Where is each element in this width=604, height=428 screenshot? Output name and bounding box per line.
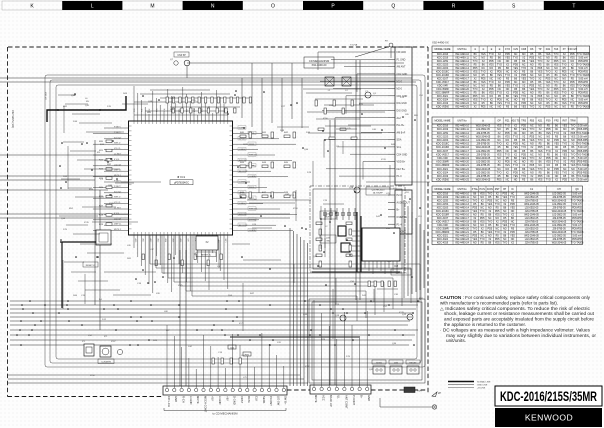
svg-text:J29-0785-05: J29-0785-05 (525, 242, 539, 245)
svg-text:PD5: PD5 (521, 125, 526, 128)
svg-text:L02-0502-05: L02-0502-05 (476, 128, 490, 131)
svg-text:the appliance is returned to t: the appliance is returned to the custome… (444, 322, 526, 327)
svg-text:AUX SW: AUX SW (239, 213, 247, 216)
svg-text:P.CONT: P.CONT (269, 396, 273, 406)
svg-text:X92-4490-21: X92-4490-21 (455, 164, 469, 167)
svg-text:③: ③ (490, 48, 492, 51)
svg-text:NO: NO (514, 179, 518, 182)
svg-text:and exposed parts are acceptab: and exposed parts are acceptably insulat… (444, 317, 595, 322)
svg-text:IC11: IC11 (290, 195, 295, 197)
svg-text:PD5: PD5 (513, 171, 518, 174)
svg-text:PWR CTL: PWR CTL (249, 209, 258, 211)
svg-text:NO: NO (498, 106, 502, 109)
svg-text:P KEY1: P KEY1 (114, 127, 121, 129)
svg-text:X92-4490-10: X92-4490-10 (455, 125, 469, 128)
svg-text:PD5: PD5 (521, 153, 526, 156)
connector CN1 to CD mechanism (163, 386, 288, 413)
svg-text:X92-4490-23: X92-4490-23 (455, 171, 469, 174)
svg-text:NC: NC (522, 171, 526, 174)
svg-text:J29-0785-05: J29-0785-05 (476, 153, 490, 156)
svg-text:TYO: TYO (505, 153, 510, 156)
svg-text:YES: YES (495, 242, 500, 245)
svg-text:X92-4490-17: X92-4490-17 (455, 150, 469, 153)
crystal X1 oscillator (82, 341, 123, 364)
svg-text:TRS: TRS (521, 119, 526, 122)
svg-text:CD MECHANISM: CD MECHANISM (309, 59, 329, 63)
svg-text:NO: NO (547, 164, 551, 167)
svg-text:LCD CE: LCD CE (114, 164, 122, 166)
svg-text:L-DATA: L-DATA (249, 229, 256, 232)
svg-text:5:00 mH: 5:00 mH (578, 146, 587, 149)
svg-text:KDC-3024: KDC-3024 (437, 171, 449, 174)
svg-text:NO: NO (522, 132, 526, 135)
switch S3 reset (406, 360, 420, 374)
svg-text:X92-4490-22: X92-4490-22 (455, 168, 469, 171)
bracket to CD mechanism (164, 408, 286, 416)
op-amp region: IC1 microcontroller body (129, 121, 233, 235)
svg-text:ADJ TS: ADJ TS (511, 119, 520, 122)
svg-text:SIRK D: SIRK D (114, 143, 121, 145)
svg-text:5:00 mH: 5:00 mH (578, 125, 587, 128)
svg-text:N: N (211, 4, 215, 10)
audio sub-board outline (310, 186, 405, 272)
svg-text:DIG GND: DIG GND (397, 110, 408, 113)
table 3 destination chart (432, 186, 583, 245)
svg-text:MODEL NAME: MODEL NAME (435, 188, 451, 191)
svg-text:unit/units.: unit/units. (446, 338, 466, 343)
svg-text:TYO: TYO (562, 171, 567, 174)
svg-text:NC: NC (530, 153, 534, 156)
svg-text:NO: NO (562, 106, 566, 109)
svg-text:NO: NO (522, 161, 526, 164)
svg-text:SMC1: SMC1 (249, 144, 254, 146)
svg-text:YES: YES (571, 164, 576, 167)
svg-text:L-SEG: L-SEG (239, 149, 245, 151)
wire horizontal bus bundle middle (10, 301, 420, 325)
svg-text:SDA: SDA (397, 139, 402, 142)
svg-text:YES: YES (505, 164, 510, 167)
svg-text:+B LINE: +B LINE (477, 388, 486, 390)
svg-text:O: O (271, 4, 275, 10)
svg-text:PD5: PD5 (505, 132, 510, 135)
title block model number (495, 386, 602, 406)
svg-text:· DC voltages are as measured: · DC voltages are as measured with a hig… (440, 327, 590, 332)
svg-text:XRST: XRST (240, 396, 244, 404)
svg-text:UNIT No: UNIT No (457, 188, 467, 191)
svg-text:R-CH: R-CH (182, 396, 186, 403)
svg-text:NO: NO (555, 175, 559, 178)
wire vertical risers top-mid (242, 63, 302, 136)
connector CN2 lower pin ladder (388, 190, 412, 234)
svg-text:D41: D41 (546, 48, 551, 51)
svg-text:PD5: PD5 (546, 157, 551, 160)
svg-text:TYO-TA008: TYO-TA008 (576, 132, 589, 135)
svg-text:NO: NO (563, 157, 567, 160)
svg-text:AD6: AD6 (179, 239, 182, 243)
svg-text:5:00 mH: 5:00 mH (578, 168, 587, 171)
svg-text:KDC-X4R: KDC-X4R (437, 157, 448, 160)
svg-text:X92-4490-00: X92-4490-00 (312, 63, 328, 67)
svg-text:NO: NO (555, 146, 559, 149)
svg-text:L02-0502-05: L02-0502-05 (476, 150, 490, 153)
svg-text:YES: YES (513, 175, 518, 178)
transistor Q1 tuner (365, 92, 377, 98)
wire junction dots (16, 90, 421, 346)
svg-text:TYO: TYO (513, 164, 518, 167)
svg-text:KDC-216S: KDC-216S (437, 139, 449, 142)
svg-text:R: R (452, 4, 456, 10)
svg-text:DATA: DATA (247, 396, 251, 403)
svg-text:CD8: CD8 (521, 48, 526, 51)
svg-text:R21: R21 (505, 119, 510, 122)
svg-text:EXT RQ: EXT RQ (249, 219, 257, 221)
svg-text:AUDIO OUT: AUDIO OUT (397, 201, 411, 204)
antenna terminal symbol (380, 392, 441, 409)
svg-text:TYO: TYO (529, 157, 534, 160)
svg-text:PLL B+: PLL B+ (397, 124, 405, 127)
svg-text:NO: NO (530, 171, 534, 174)
svg-text:YES: YES (521, 128, 526, 131)
svg-text:NC: NC (538, 164, 542, 167)
wire misc interconnect (63, 89, 430, 339)
capacitor cluster audio (323, 208, 357, 220)
svg-text:L02-0502-05: L02-0502-05 (476, 171, 490, 174)
svg-text:+5V: +5V (211, 396, 215, 401)
svg-text:NC: NC (530, 125, 534, 128)
svg-text:KDC-316T: KDC-316T (437, 150, 449, 153)
svg-text:PD5: PD5 (562, 179, 567, 182)
connector CN4 power (310, 385, 371, 409)
svg-text:L02-0502-05: L02-0502-05 (476, 161, 490, 164)
svg-text:TYO-TA008: TYO-TA008 (576, 164, 589, 167)
resistor cluster sub-board (316, 222, 396, 287)
resistor cluster tuner (315, 100, 357, 139)
svg-text:P1-0: P1-0 (397, 175, 403, 178)
svg-text:RESET IC: RESET IC (86, 265, 96, 267)
transistor Q7 top (170, 52, 190, 78)
svg-text:INT1: INT1 (224, 239, 226, 243)
svg-text:BACK UP: BACK UP (329, 395, 333, 407)
svg-text:NO: NO (506, 168, 510, 171)
svg-text:IC29: IC29 (399, 312, 404, 314)
IC1 right pin label boxes (238, 126, 258, 232)
svg-text:CD2 GND: CD2 GND (397, 73, 408, 76)
svg-text:ICON: ICON (487, 188, 493, 191)
wire vertical bus bundle centre (290, 228, 308, 386)
svg-text:YES: YES (546, 132, 551, 135)
svg-text:IC: IC (511, 188, 514, 191)
svg-text:PD5: PD5 (546, 106, 551, 109)
IC1 pin ticks (129, 121, 233, 235)
svg-text:RST: RST (495, 188, 500, 191)
label box IC8 part number (391, 269, 411, 275)
svg-text:NC: NC (506, 150, 510, 153)
transistor Q13 (335, 315, 346, 321)
svg-text:NO: NO (571, 168, 575, 171)
svg-text:DISP CL: DISP CL (114, 224, 121, 226)
svg-text:shock, leakage current or resi: shock, leakage current or resistance mea… (444, 311, 595, 316)
svg-text:SG OUT: SG OUT (114, 191, 122, 193)
svg-text:L-DATA: L-DATA (249, 175, 256, 178)
svg-text:5:00 mH: 5:00 mH (578, 157, 587, 160)
svg-text:NC: NC (563, 139, 567, 142)
IC8 audio amplifier (352, 228, 400, 274)
svg-text:KDC-4019: KDC-4019 (437, 242, 449, 245)
svg-text:IC67: IC67 (111, 341, 116, 343)
svg-text:E VOL: E VOL (114, 213, 120, 215)
svg-text:AD3: AD3 (156, 239, 159, 243)
svg-text:GND: GND (367, 395, 371, 401)
svg-text:ALT BUFF: ALT BUFF (373, 192, 383, 195)
wires above connector CN4 (314, 300, 367, 387)
svg-text:A GND: A GND (189, 396, 193, 404)
svg-text:PD5: PD5 (554, 168, 559, 171)
svg-text:TDA-CODEC: TDA-CODEC (395, 271, 408, 274)
wire B+ bold segments (230, 212, 400, 337)
svg-text:NC: NC (571, 150, 575, 153)
svg-text:PD5: PD5 (546, 128, 551, 131)
svg-text:MUTE 1: MUTE 1 (114, 229, 121, 231)
svg-text:NC: NC (497, 168, 501, 171)
svg-text:TYO: TYO (497, 171, 502, 174)
svg-text:AM B+F: AM B+F (397, 131, 406, 134)
svg-text:J29-0785-05: J29-0785-05 (476, 164, 490, 167)
svg-text:NO: NO (547, 135, 551, 138)
svg-text:PD5-R55: PD5-R55 (578, 139, 589, 142)
svg-text:KENWOOD: KENWOOD (525, 412, 573, 422)
svg-text:⑤: ⑤ (482, 119, 484, 122)
svg-text:+8V: +8V (225, 396, 229, 401)
svg-text:SENS: SENS (376, 362, 382, 364)
svg-text:NC: NC (571, 179, 575, 182)
svg-text:DIG GND: DIG GND (397, 102, 408, 105)
svg-text:to CD MECHANISM: to CD MECHANISM (212, 412, 238, 416)
svg-text:NC: NC (547, 175, 551, 178)
Kenwood logo block (495, 408, 602, 427)
svg-text:X92-4490-16: X92-4490-16 (455, 146, 469, 149)
svg-text:Q: Q (391, 4, 395, 10)
svg-text:FS9: FS9 (546, 119, 551, 122)
svg-text:L-GRIN: L-GRIN (239, 128, 246, 130)
svg-text:W02-2046-05: W02-2046-05 (476, 146, 491, 149)
svg-text:NO: NO (563, 128, 567, 131)
svg-text:TYO: TYO (562, 143, 567, 146)
svg-text:IC91: IC91 (243, 144, 248, 146)
svg-text:MUTE: MUTE (196, 396, 200, 404)
svg-text:X92-4490-12: X92-4490-12 (455, 132, 469, 135)
svg-text:P.CN: P.CN (479, 188, 485, 191)
svg-text:PD5-R55: PD5-R55 (578, 171, 589, 174)
svg-text:KDC-3021: KDC-3021 (437, 168, 449, 171)
svg-text:W02-2046-05: W02-2046-05 (476, 179, 491, 182)
svg-text:L-GRIN: L-GRIN (239, 182, 246, 184)
svg-text:X92-4490-18: X92-4490-18 (455, 153, 469, 156)
svg-text:NO: NO (473, 242, 477, 245)
table 2 destination chart (432, 117, 588, 182)
svg-text:VOL CL: VOL CL (114, 202, 121, 204)
svg-text:M2-0: M2-0 (397, 88, 403, 91)
svg-text:FR2: FR2 (554, 119, 559, 122)
svg-text:CYO: CYO (505, 48, 510, 51)
svg-text:KDC-2016C: KDC-2016C (436, 143, 449, 146)
IC1 bottom pin wires (134, 235, 228, 293)
svg-text:NO: NO (514, 150, 518, 153)
svg-text:△ Indicates safety critical co: △ Indicates safety critical components. … (440, 306, 590, 311)
svg-text:PD5-R55: PD5-R55 (578, 161, 589, 164)
transistor Q16 safety critical (320, 235, 350, 252)
svg-text:TYO: TYO (497, 143, 502, 146)
svg-text:DISP CL: DISP CL (114, 170, 121, 172)
svg-text:TYO: TYO (554, 161, 559, 164)
svg-text:ILL: ILL (337, 395, 341, 399)
svg-text:X92-4490-24: X92-4490-24 (455, 242, 469, 245)
svg-text:NC: NC (547, 146, 551, 149)
svg-text:P2-0: P2-0 (397, 194, 403, 197)
svg-text:PD5: PD5 (497, 150, 502, 153)
svg-text:2P: 2P (438, 392, 441, 395)
svg-text:NC: NC (554, 106, 558, 109)
coil L1 (325, 77, 334, 92)
svg-text:UNIT No: UNIT No (457, 119, 467, 122)
svg-text:IC8: IC8 (394, 264, 399, 268)
svg-text:GND LINE: GND LINE (477, 385, 488, 387)
svg-text:BUFF: BUFF (325, 217, 331, 219)
svg-text:J29-0785-05: J29-0785-05 (476, 143, 490, 146)
svg-text:SW B+: SW B+ (284, 396, 288, 405)
svg-text:YES: YES (554, 171, 559, 174)
svg-text:XT: XT (563, 48, 567, 51)
svg-text:ACC: ACC (322, 395, 326, 401)
svg-text:NO: NO (506, 139, 510, 142)
reset IC X3 left (60, 230, 111, 308)
svg-text:A GND: A GND (218, 396, 222, 404)
svg-text:TYO: TYO (521, 146, 526, 149)
svg-text:W02-2046-05: W02-2046-05 (552, 242, 567, 245)
wire horizontal bus bundle upper (0, 63, 416, 218)
svg-text:P CONT: P CONT (352, 395, 356, 405)
svg-text:SENS: SENS (262, 396, 266, 404)
svg-text:TYO: TYO (570, 153, 575, 156)
svg-text:W02-2046-05: W02-2046-05 (476, 157, 491, 160)
svg-text:X92-4490-15: X92-4490-15 (455, 143, 469, 146)
svg-text:YES: YES (562, 153, 567, 156)
svg-text:L: L (91, 4, 94, 10)
svg-text:MECH CONT: MECH CONT (203, 396, 207, 413)
svg-text:X92-4490-20: X92-4490-20 (455, 161, 469, 164)
svg-text:IC95: IC95 (191, 100, 196, 102)
svg-text:KDC-2016/215S/35MR: KDC-2016/215S/35MR (500, 389, 597, 404)
svg-text:IC50: IC50 (90, 375, 95, 377)
svg-text:NC: NC (490, 106, 494, 109)
svg-text:SIRK D: SIRK D (114, 197, 121, 199)
transistor Q12 (402, 314, 413, 320)
wire vertical risers left (95, 60, 360, 388)
table 1 destination chart (432, 46, 590, 109)
svg-text:PD5-R55: PD5-R55 (578, 128, 589, 131)
svg-text:µPD78334GC: µPD78334GC (174, 182, 189, 185)
svg-text:OP: OP (497, 119, 501, 122)
svg-text:CH: CH (557, 188, 561, 191)
svg-text:AM ANT: AM ANT (397, 66, 406, 69)
svg-text:②: ② (482, 48, 484, 51)
svg-text:L-PO3: L-PO3 (239, 138, 244, 140)
svg-text:FM GND: FM GND (397, 51, 407, 54)
svg-text:NO: NO (497, 128, 501, 131)
svg-text:YES: YES (497, 153, 502, 156)
svg-text:X'TAL: X'TAL (472, 188, 479, 191)
svg-text:P1 GND: P1 GND (397, 58, 406, 61)
svg-text:LC RST: LC RST (114, 154, 122, 156)
power sub-board outline (309, 299, 425, 383)
svg-text:LID SW: LID SW (276, 396, 280, 406)
svg-text:NC: NC (555, 157, 559, 160)
svg-text:PD5: PD5 (538, 175, 543, 178)
svg-text:X92-4490-25: X92-4490-25 (455, 106, 469, 109)
svg-text:KDC-115S: KDC-115S (437, 132, 449, 135)
svg-text:IC75: IC75 (178, 285, 183, 287)
svg-text:J29-0785-05: J29-0785-05 (476, 132, 490, 135)
svg-text:TYO: TYO (513, 135, 518, 138)
IC1 bottom rotated pin labels (134, 239, 226, 243)
svg-text:SRCK: SRCK (249, 187, 255, 189)
svg-text:★ IC1: ★ IC1 (177, 175, 186, 179)
wire nested routing below IC1 (150, 235, 420, 321)
svg-text:5:00 mH: 5:00 mH (578, 135, 587, 138)
svg-text:NC: NC (514, 161, 518, 164)
svg-text:NC: NC (497, 139, 501, 142)
svg-text:NC: NC (522, 143, 526, 146)
reset IC X2 (196, 236, 218, 257)
svg-text:TP: TP (538, 48, 541, 51)
wire horizontal bus bundle lower (8, 330, 418, 383)
svg-text:PD5: PD5 (530, 164, 535, 167)
svg-text:YES: YES (521, 157, 526, 160)
svg-text:YES: YES (530, 139, 535, 142)
svg-text:KEY B+: KEY B+ (397, 168, 406, 171)
wire vertical bus bundle right (404, 200, 424, 298)
svg-text:KDC-V5560: KDC-V5560 (436, 106, 449, 109)
svg-text:TYO: TYO (554, 132, 559, 135)
svg-text:TYO-TA008: TYO-TA008 (576, 153, 589, 156)
svg-text:P1-4: P1-4 (397, 223, 403, 226)
svg-text:YES: YES (538, 179, 543, 182)
coil L2 (342, 77, 351, 92)
svg-text:KDC-35MR: KDC-35MR (436, 161, 448, 164)
svg-text:B+: B+ (360, 395, 364, 399)
fuse holder on boundary (404, 387, 422, 393)
svg-text:IC82: IC82 (109, 203, 114, 205)
svg-text:P KEY1: P KEY1 (114, 181, 121, 183)
svg-text:M: M (150, 4, 154, 10)
component cluster right of IC1 (240, 132, 296, 198)
svg-text:KDC-4019: KDC-4019 (437, 175, 449, 178)
svg-text:P KEY2: P KEY2 (114, 186, 121, 188)
svg-text:KDC-2019: KDC-2019 (437, 128, 449, 131)
resistor network above IC1 (166, 97, 252, 113)
svg-text:X92-4490-13: X92-4490-13 (455, 135, 469, 138)
svg-text:R87: R87 (563, 119, 568, 122)
svg-text:C29: C29 (513, 48, 518, 51)
svg-text:TYO-TA008: TYO-TA008 (577, 106, 590, 109)
svg-text:CLK/MTR: CLK/MTR (101, 362, 111, 364)
svg-text:AD CONT: AD CONT (239, 170, 248, 173)
svg-text:SG OUT: SG OUT (114, 137, 122, 139)
IC1 top pin wires (134, 86, 250, 121)
svg-text:PD5: PD5 (562, 150, 567, 153)
svg-text:NO: NO (538, 125, 542, 128)
svg-text:PD5: PD5 (530, 135, 535, 138)
dashed board boundary frame (8, 47, 429, 397)
